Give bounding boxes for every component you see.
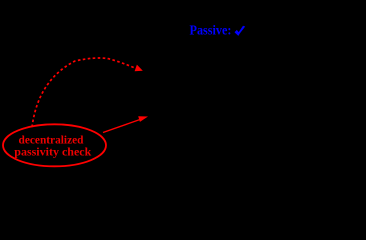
svg-text:Passive:: Passive:	[190, 24, 232, 39]
svg-text:passivity check: passivity check	[14, 145, 91, 159]
curved dashed arrow to upper area	[32, 58, 137, 127]
checkmark	[235, 26, 246, 36]
arrowhead of straight arrow	[138, 116, 148, 122]
straight arrow to middle area	[103, 120, 140, 133]
ellipse: decentralized passivity check	[3, 124, 106, 166]
arrowhead of curved arrow	[135, 65, 143, 72]
